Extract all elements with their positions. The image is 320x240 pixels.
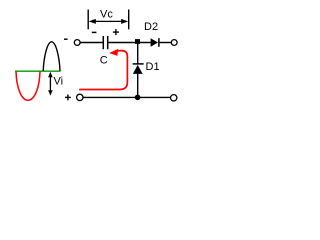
svg-text:D1: D1 bbox=[146, 61, 160, 73]
node positive input terminal plus sign bbox=[65, 95, 71, 101]
wire current-flow path (red) with arrowhead bbox=[79, 49, 127, 90]
node output terminal (top-right) bbox=[171, 40, 177, 46]
diode D2 bbox=[151, 38, 159, 47]
node input terminal (bottom-left) bbox=[77, 94, 83, 100]
wire junction to D1 cathode bbox=[137, 43, 139, 64]
node capacitor polarity minus bbox=[92, 31, 97, 33]
node Vi amplitude arrow bbox=[48, 72, 53, 96]
svg-text:Vc: Vc bbox=[100, 9, 113, 21]
node negative input terminal minus sign bbox=[64, 38, 68, 40]
node Vc dimension right bar bbox=[128, 10, 130, 30]
diode D1 bbox=[133, 64, 144, 74]
wire D1 anode to bottom junction bbox=[137, 74, 139, 98]
node Vi-waveform baseline bbox=[15, 70, 61, 72]
node junction bottom bbox=[135, 95, 141, 101]
wire capacitor to D2 anode bbox=[108, 42, 150, 44]
capacitor C bbox=[103, 36, 107, 49]
wire negative half-cycle (red) of input sine bbox=[16, 72, 40, 101]
wire positive half-cycle (black) of input sine bbox=[43, 42, 60, 71]
wire bottom rail bbox=[84, 96, 171, 98]
node input terminal (top-left) bbox=[74, 40, 80, 46]
wire D2 cathode to output terminal bbox=[160, 42, 172, 44]
node junction top bbox=[135, 39, 140, 44]
wire input terminal to capacitor bbox=[80, 42, 102, 44]
node Vc dimension arrow bbox=[89, 19, 129, 24]
svg-text:D2: D2 bbox=[144, 21, 158, 33]
svg-text:C: C bbox=[100, 55, 108, 67]
svg-text:Vi: Vi bbox=[54, 76, 64, 88]
node output terminal (bottom-right) bbox=[171, 95, 177, 101]
node Vc dimension left bar bbox=[87, 10, 89, 30]
node capacitor polarity plus bbox=[113, 29, 119, 35]
